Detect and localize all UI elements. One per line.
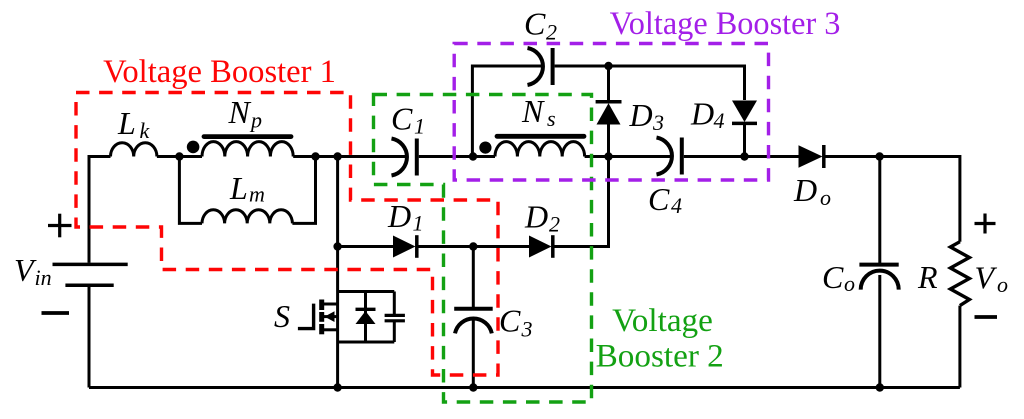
svg-text:4: 4 (714, 108, 725, 133)
node main-C2riser (469, 152, 477, 160)
inductor Lk (111, 143, 157, 157)
svg-text:p: p (249, 108, 262, 133)
wire (684, 155, 799, 158)
label D1 (387, 198, 424, 236)
label D3 (629, 97, 665, 135)
capacitor C4 (657, 138, 682, 175)
wire MOSFET vertical (336, 247, 339, 388)
svg-text:o: o (820, 185, 831, 210)
transformer primary Np (202, 142, 293, 157)
svg-text:D: D (690, 96, 714, 132)
node main-drain (333, 152, 341, 160)
MOSFET bottom rail (338, 341, 395, 344)
svg-text:D: D (629, 97, 653, 133)
svg-text:m: m (249, 182, 265, 207)
node main-D4 (740, 152, 748, 160)
svg-text:1: 1 (413, 211, 424, 236)
wire C2 riser (472, 66, 542, 157)
label Vo (975, 260, 1009, 298)
svg-text:C: C (391, 101, 413, 137)
Voltage Booster 2 box (green dashed) (374, 95, 592, 403)
plus Vin (48, 214, 72, 238)
Voltage Booster 3 box (purple dashed) (454, 44, 768, 181)
node main-Lm-left (175, 152, 183, 160)
node Drow-drain (333, 242, 341, 250)
wire drain riser (336, 157, 339, 247)
wire top rail (555, 66, 745, 100)
inductor Lm right side wire (292, 157, 315, 224)
label Co (822, 259, 855, 296)
svg-text:C: C (822, 259, 844, 295)
wire (585, 155, 671, 158)
svg-text:4: 4 (671, 193, 682, 218)
label Vin (14, 252, 52, 290)
plus Vo (975, 214, 996, 234)
diode D3 (596, 66, 622, 157)
svg-text:1: 1 (414, 114, 425, 139)
svg-text:D: D (793, 172, 817, 208)
node main-Co (875, 152, 883, 160)
wire bottom rail (89, 386, 960, 389)
svg-text:C: C (648, 181, 670, 217)
svg-text:s: s (547, 106, 556, 131)
wire (419, 155, 495, 158)
wire (293, 155, 406, 158)
label Do (793, 172, 831, 210)
wire (958, 306, 961, 388)
svg-text:o: o (997, 272, 1008, 297)
svg-text:in: in (35, 265, 52, 290)
battery Vin top plate (53, 263, 128, 267)
diode D1 (393, 235, 417, 258)
inductor Lm (202, 210, 292, 224)
capacitor C2 (528, 48, 553, 85)
label D4 (690, 96, 725, 134)
Ns polarity dot (479, 142, 491, 154)
svg-text:D: D (387, 198, 411, 234)
wire (157, 155, 202, 158)
node main-D3 (604, 152, 612, 160)
capacitor C3 (454, 247, 493, 388)
minus Vin (42, 311, 70, 315)
label C1 (391, 101, 425, 139)
wire (419, 245, 530, 248)
MOSFET top rail (338, 290, 395, 293)
parasitic capacitor of S (385, 292, 405, 343)
label Ns (521, 93, 556, 131)
label S (274, 298, 290, 334)
label D2 (524, 199, 560, 237)
wire D row (338, 245, 393, 248)
resistor R (950, 242, 969, 306)
capacitor C1 (392, 139, 417, 176)
Np polarity dot (187, 141, 200, 154)
wire (89, 157, 111, 263)
svg-text:C: C (524, 6, 546, 42)
diode D4 (732, 101, 757, 157)
svg-text:N: N (521, 93, 545, 129)
minus Vo (975, 315, 998, 319)
diode Do (799, 145, 824, 168)
node bottom-C3 (469, 383, 477, 391)
label Lk (117, 105, 151, 143)
svg-text:C: C (499, 303, 521, 339)
node top-D3 (604, 62, 612, 70)
battery Vin bottom plate (65, 283, 113, 287)
svg-text:Booster 2: Booster 2 (596, 337, 724, 374)
body diode of S (356, 292, 376, 343)
Voltage Booster 1 box (red dashed) (76, 93, 498, 376)
node Drow-C3 (469, 242, 477, 250)
node bottom-Co (876, 383, 884, 391)
svg-text:3: 3 (521, 317, 533, 342)
Np core bar (204, 134, 291, 139)
label C3 (499, 303, 533, 342)
svg-text:N: N (228, 94, 252, 130)
svg-text:L: L (229, 170, 248, 206)
label Lm (229, 170, 265, 207)
inductor Lm left side wire (179, 157, 202, 224)
label Voltage Booster 2 (596, 302, 724, 374)
wire (555, 157, 609, 247)
label C4 (648, 181, 682, 218)
svg-text:R: R (917, 259, 938, 295)
transformer secondary Ns (495, 142, 585, 157)
wire (88, 287, 91, 388)
Ns core bar (497, 134, 584, 139)
svg-text:2: 2 (549, 212, 560, 237)
svg-text:Voltage Booster 1: Voltage Booster 1 (103, 54, 336, 90)
svg-text:L: L (117, 105, 136, 141)
node main-Lm-right (311, 152, 319, 160)
wire (826, 157, 960, 242)
svg-text:k: k (140, 118, 151, 143)
node bottom-S (333, 383, 341, 391)
label Np (228, 94, 263, 133)
svg-text:S: S (274, 298, 290, 334)
label C2 (524, 6, 557, 45)
svg-text:3: 3 (652, 110, 664, 135)
label R (917, 259, 938, 295)
transistor Q S (MOSFET) (298, 300, 338, 335)
svg-text:2: 2 (546, 20, 557, 45)
diode D2 (529, 235, 553, 258)
svg-text:o: o (844, 271, 855, 296)
capacitor Co (859, 157, 898, 388)
svg-text:Voltage Booster 3: Voltage Booster 3 (610, 5, 841, 41)
svg-text:D: D (524, 199, 548, 235)
svg-text:Voltage: Voltage (612, 302, 713, 339)
